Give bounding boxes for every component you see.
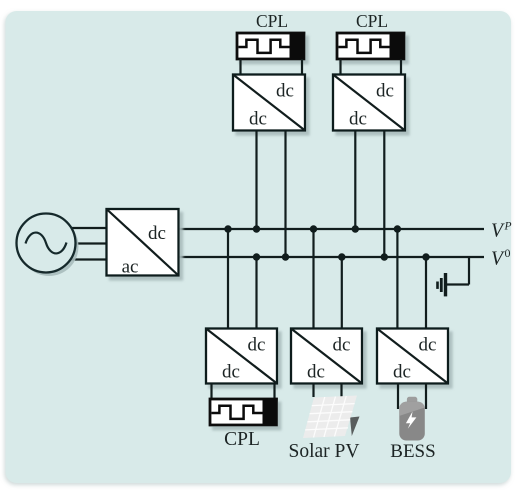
converter U4 dc/dc	[206, 329, 277, 384]
BESS battery	[399, 397, 425, 441]
wire U5 to PV	[312, 384, 314, 398]
junction U4-VP	[224, 225, 231, 232]
wire VP to U5	[312, 229, 314, 329]
svg-text:dc: dc	[307, 362, 325, 383]
wire U3 to VP	[354, 131, 356, 230]
svg-text:dc: dc	[376, 81, 394, 102]
svg-text:Solar PV: Solar PV	[289, 441, 360, 462]
junction U2-V0	[282, 253, 289, 260]
svg-text:V: V	[491, 221, 505, 242]
junction U6-VP	[394, 225, 401, 232]
svg-text:dc: dc	[222, 362, 240, 383]
wire U6 to BESS	[397, 384, 399, 410]
wire U2 to V0	[284, 131, 286, 258]
converter U3 dc/dc	[333, 75, 405, 131]
solar PV panel	[303, 396, 360, 439]
converter U1 ac/dc	[107, 209, 179, 278]
wire three-phase from source to U1	[70, 228, 107, 260]
junction U4-V0	[253, 253, 260, 260]
converter U6 dc/dc	[377, 329, 448, 384]
wire VP to U4	[227, 229, 229, 329]
bus VP	[178, 228, 484, 230]
CPL load 3	[210, 399, 277, 425]
svg-text:dc: dc	[249, 109, 267, 130]
wire U4 to CPL3 right	[273, 384, 275, 400]
wire U4 to CPL3	[210, 384, 212, 400]
svg-text:CPL: CPL	[256, 11, 288, 31]
wire VP to U6	[396, 229, 398, 329]
CPL load 1	[237, 33, 304, 59]
converter U2 dc/dc	[233, 75, 305, 131]
junction U6-V0	[422, 253, 429, 260]
wire CPL1 to U2 right	[301, 59, 303, 75]
junction U3-VP	[352, 225, 359, 232]
svg-text:CPL: CPL	[356, 11, 388, 31]
svg-text:P: P	[504, 221, 512, 233]
svg-text:dc: dc	[333, 335, 351, 356]
junction U3-V0	[381, 253, 388, 260]
svg-text:dc: dc	[349, 109, 367, 130]
svg-text:BESS: BESS	[390, 441, 435, 462]
wire U5 to PV right	[340, 384, 342, 398]
converter U5 dc/dc	[291, 329, 362, 384]
junction U2-VP	[253, 225, 260, 232]
wire V0 to U6	[425, 257, 427, 329]
svg-text:0: 0	[505, 246, 511, 260]
svg-text:CPL: CPL	[224, 429, 260, 450]
wire CPL2 to U3	[339, 59, 341, 75]
bus V0	[178, 256, 484, 258]
CPL load 2	[337, 33, 404, 59]
svg-text:dc: dc	[419, 335, 437, 356]
AC source G1	[17, 214, 79, 277]
wire U3 to V0	[383, 131, 385, 258]
wire U2 to VP	[255, 131, 257, 230]
svg-text:dc: dc	[393, 362, 411, 383]
svg-text:V: V	[491, 249, 505, 270]
wire U6 to BESS right	[425, 384, 427, 410]
svg-text:dc: dc	[276, 81, 294, 102]
svg-text:dc: dc	[148, 223, 166, 244]
svg-text:dc: dc	[248, 335, 266, 356]
ground	[436, 257, 469, 296]
wire CPL1 to U2	[239, 59, 241, 75]
wire V0 to U5	[341, 257, 343, 329]
junction U5-V0	[338, 253, 345, 260]
svg-text:ac: ac	[122, 257, 139, 278]
wire CPL2 to U3 right	[400, 59, 402, 75]
junction U5-VP	[310, 225, 317, 232]
wire V0 to U4	[255, 257, 257, 329]
